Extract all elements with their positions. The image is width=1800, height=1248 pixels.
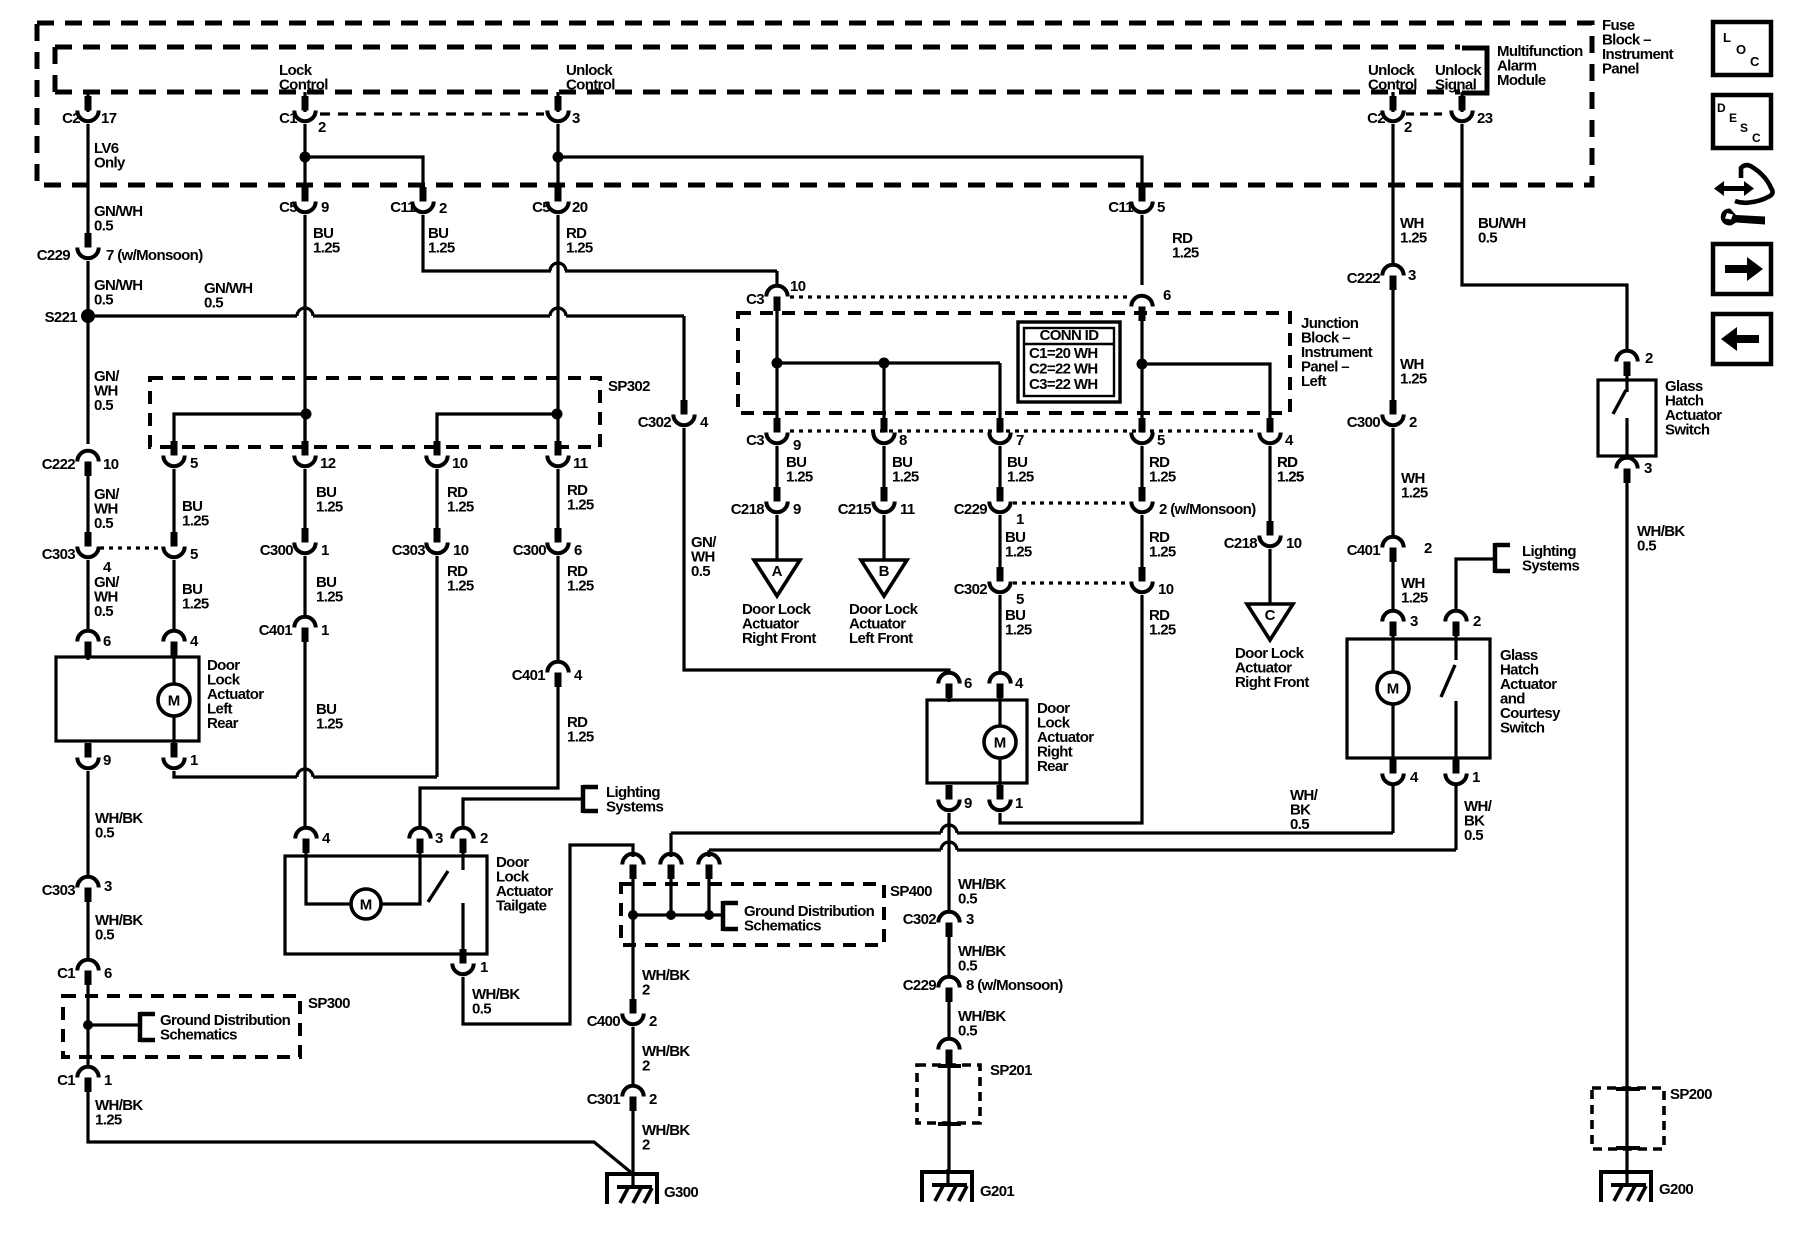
svg-text:2: 2 (1473, 613, 1481, 630)
svg-text:G201: G201 (980, 1183, 1014, 1200)
connector pin 1 below right rear box (989, 785, 1010, 810)
svg-text:9: 9 (103, 752, 111, 769)
dotted line along junction outputs (790, 429, 1256, 432)
connector C5 pin 20 (547, 187, 568, 212)
wire 11 to C300-6 (556, 469, 559, 541)
connector C11 pin 5 (1131, 187, 1152, 212)
svg-text:0.5: 0.5 (94, 397, 113, 414)
connector C1 pin 6 (77, 960, 98, 985)
svg-text:1.25: 1.25 (1400, 230, 1427, 247)
motor M right rear (984, 726, 1016, 758)
tailgate switch lower stub (461, 903, 464, 954)
wire tailgate pin1 to SP400 cup1 (463, 845, 633, 1024)
wire pin9 to C218-9 (775, 446, 778, 500)
svg-text:10: 10 (790, 278, 806, 295)
svg-text:1.25: 1.25 (95, 1112, 122, 1129)
svg-text:Systems: Systems (1522, 558, 1579, 575)
wire C400-2 to C301-2 (631, 1027, 634, 1085)
svg-text:C: C (1752, 131, 1761, 145)
svg-text:2: 2 (1404, 119, 1412, 136)
wire glass hatch pin4 to SP400 cup2 upper (669, 833, 672, 857)
wire C302-5 to right rear pin 4 (998, 595, 1001, 672)
svg-text:4: 4 (1410, 769, 1419, 786)
pin 6 stub inside (947, 698, 950, 702)
svg-text:4: 4 (700, 414, 709, 431)
wire C11-2 to C3-10 (423, 215, 551, 271)
connector C302 pin 10 (1131, 567, 1152, 592)
svg-text:Control: Control (279, 77, 328, 94)
svg-text:7: 7 (1016, 432, 1024, 449)
svg-text:1.25: 1.25 (1149, 544, 1176, 561)
svg-text:2: 2 (1424, 540, 1432, 557)
connector C3 pin 10 (766, 286, 787, 311)
svg-text:1.25: 1.25 (447, 499, 474, 516)
svg-text:2: 2 (642, 982, 650, 999)
svg-text:2: 2 (318, 119, 326, 136)
connector C218 pin 10 (1259, 521, 1280, 546)
ground G200 (1601, 1169, 1651, 1202)
svg-text:SP201: SP201 (990, 1062, 1032, 1079)
connector C3 pin 9 (766, 418, 787, 443)
connector C303 pin 5 (163, 532, 184, 557)
connector pin 4 of left rear actuator (163, 631, 184, 656)
svg-text:1.25: 1.25 (1401, 485, 1428, 502)
svg-text:C222: C222 (1347, 270, 1381, 287)
connector pin 12 (294, 441, 315, 466)
icon arrow right box (1713, 244, 1771, 294)
connector C229 pin 1 (989, 487, 1010, 512)
svg-text:C401: C401 (512, 667, 546, 684)
splice crossbar SP200 bottom (1616, 1146, 1640, 1150)
svg-text:C401: C401 (259, 622, 293, 639)
connector C401 pin 4 (547, 662, 568, 687)
svg-text:Control: Control (1368, 77, 1417, 94)
connector C218 pin 9 (766, 487, 787, 512)
svg-text:2: 2 (642, 1058, 650, 1075)
hop over BU wire at x=305 (313, 775, 437, 778)
wire C300-6 to C401-4 (556, 556, 559, 660)
svg-text:Left: Left (1301, 373, 1327, 390)
connector C229 pin 2 w/Monsoon (1131, 487, 1152, 512)
svg-text:M: M (360, 897, 373, 914)
svg-text:C218: C218 (1224, 535, 1258, 552)
hop S221 over x=558 (550, 308, 566, 316)
wire C303-10 down to y777 corner (435, 556, 438, 777)
svg-text:9: 9 (321, 199, 329, 216)
svg-text:2: 2 (1409, 414, 1417, 431)
connector C222 pin 3 (1382, 265, 1403, 290)
connector C401 pin 2 (1382, 537, 1403, 562)
wire C1-3 down to junction (556, 124, 559, 187)
svg-text:5: 5 (190, 546, 198, 563)
dashed link C1-2 to C1-3 (320, 112, 544, 115)
svg-text:3: 3 (572, 110, 580, 127)
svg-text:C300: C300 (260, 542, 294, 559)
courtesy switch lower stub (1454, 701, 1457, 772)
svg-text:3: 3 (1644, 460, 1652, 477)
svg-text:1.25: 1.25 (182, 596, 209, 613)
svg-text:9: 9 (793, 501, 801, 518)
connector C1 pin 2 (294, 96, 315, 121)
svg-text:C302: C302 (954, 581, 988, 598)
ground G300 (607, 1171, 657, 1204)
svg-text:2: 2 (649, 1091, 657, 1108)
connector SP400 cup 3 (698, 854, 719, 879)
svg-text:C229: C229 (954, 501, 988, 518)
connector C11 pin 6 (1131, 296, 1152, 321)
connector pin 6 of left rear actuator (77, 631, 98, 656)
door lock actuator right rear box (927, 700, 1027, 783)
svg-text:2 (w/Monsoon): 2 (w/Monsoon) (1159, 501, 1256, 518)
dotted link C229-1 to C229-2 (1013, 501, 1129, 504)
connector C2 pin 17 (77, 96, 98, 121)
glass hatch switch blade (1613, 390, 1626, 414)
svg-text:6: 6 (1163, 287, 1171, 304)
svg-text:SP200: SP200 (1670, 1086, 1712, 1103)
svg-text:1.25: 1.25 (1005, 622, 1032, 639)
icon DESC box (1713, 95, 1771, 148)
svg-text:1.25: 1.25 (313, 240, 340, 257)
svg-text:D: D (1717, 101, 1726, 115)
CONN ID box (1018, 322, 1120, 402)
svg-text:C2: C2 (62, 110, 80, 127)
wire C222-10 to C303-4 (86, 476, 89, 545)
svg-text:1.25: 1.25 (1149, 469, 1176, 486)
pin 3 wire to motor (1391, 636, 1394, 672)
alarm module right bracket (1462, 48, 1487, 93)
svg-text:L: L (1723, 30, 1731, 45)
wire pin4 to C218-10 (1268, 446, 1271, 534)
connector pin 4 below glass hatch actuator (1382, 759, 1403, 784)
connector C2 pin 2 (right) (1382, 96, 1403, 121)
junction bus dot right (1137, 359, 1148, 370)
connector C301 pin 2 (622, 1086, 643, 1111)
svg-text:Module: Module (1497, 72, 1546, 89)
svg-text:10: 10 (453, 542, 469, 559)
wire SP302 to cup 10 (435, 424, 438, 454)
wire pin1 to C303-10 riser (174, 771, 297, 777)
svg-text:2: 2 (1645, 350, 1653, 367)
connector pin 3 of tailgate actuator (409, 828, 430, 853)
connector C300 pin 2 (1382, 400, 1403, 425)
svg-text:Right Front: Right Front (742, 630, 816, 647)
node B door lock actuator left front (861, 560, 907, 596)
svg-text:6: 6 (103, 633, 111, 650)
svg-text:1.25: 1.25 (447, 578, 474, 595)
svg-text:Schematics: Schematics (160, 1027, 237, 1044)
svg-text:23: 23 (1477, 110, 1493, 127)
connector C300 pin 6 (547, 528, 568, 553)
svg-text:1.25: 1.25 (1172, 245, 1199, 262)
svg-text:G200: G200 (1659, 1181, 1693, 1198)
svg-text:2: 2 (642, 1137, 650, 1154)
svg-text:C303: C303 (42, 546, 76, 563)
wire C401-2 to glass hatch pin 3 (1391, 562, 1394, 610)
wire pin6 into junction block (1140, 321, 1143, 426)
svg-text:C: C (1265, 607, 1276, 624)
motor M left rear (158, 684, 190, 716)
lighting systems bracket right (1495, 543, 1510, 573)
svg-text:SP300: SP300 (308, 995, 350, 1012)
svg-text:1: 1 (1016, 511, 1024, 528)
wire glass hatch switch to SP200 (1625, 483, 1628, 1091)
svg-text:C11: C11 (390, 199, 415, 216)
svg-text:Right Front: Right Front (1235, 674, 1309, 691)
branch to ground distribution bracket (88, 1023, 140, 1026)
hop over pin9 wire on line 2 (941, 842, 957, 850)
connector C401 pin 1 (294, 617, 315, 642)
connector pin 9 below right rear box (938, 785, 959, 810)
wire S221 corner down to C302-4 (682, 316, 685, 413)
svg-text:5: 5 (1157, 199, 1165, 216)
svg-text:10: 10 (1158, 581, 1174, 598)
connector pin 3 of glass hatch switch (1616, 458, 1637, 483)
svg-text:7 (w/Monsoon): 7 (w/Monsoon) (106, 247, 203, 264)
svg-text:12: 12 (320, 455, 336, 472)
svg-text:1.25: 1.25 (1400, 371, 1427, 388)
wire 10 to C303-10 (435, 469, 438, 541)
motor to pin 1 (998, 758, 1001, 797)
svg-text:1.25: 1.25 (892, 469, 919, 486)
wire C401-4 to tailgate pin 3 (420, 687, 558, 827)
svg-text:0.5: 0.5 (1464, 827, 1483, 844)
motor to pin 3 (381, 853, 420, 904)
svg-text:1: 1 (1015, 795, 1023, 812)
svg-text:C301: C301 (587, 1091, 621, 1108)
svg-text:0.5: 0.5 (204, 295, 223, 312)
svg-text:1.25: 1.25 (428, 240, 455, 257)
svg-text:5: 5 (1157, 432, 1165, 449)
wire 12 to C300-1 (303, 469, 306, 541)
connector C303 pin 3 (77, 877, 98, 902)
wire C302-4 down and to right rear pin 6 (684, 428, 949, 672)
svg-text:C300: C300 (513, 542, 547, 559)
ground distribution schematics bracket (140, 1012, 155, 1042)
wire C218-9 to triangle A (775, 515, 778, 560)
wire C303-5 to actuator pin 4 (172, 560, 175, 630)
wire C2-23 pin stub (1460, 92, 1463, 112)
svg-text:20: 20 (572, 199, 588, 216)
SP302 internal bus right (437, 414, 557, 424)
svg-text:0.5: 0.5 (472, 1001, 491, 1018)
wire C301-2 to ground G300 (631, 1111, 634, 1176)
svg-text:1.25: 1.25 (1277, 469, 1304, 486)
connector pin 2 of glass hatch switch (1616, 351, 1637, 376)
tailgate switch blade (428, 871, 448, 902)
svg-text:0.5: 0.5 (1478, 230, 1497, 247)
svg-text:C303: C303 (42, 882, 76, 899)
motor M tailgate (351, 889, 381, 919)
svg-text:C218: C218 (731, 501, 765, 518)
svg-text:4: 4 (574, 667, 583, 684)
wire glass hatch pin1 to SP400 cup3 (707, 850, 710, 857)
svg-text:O: O (1736, 42, 1746, 57)
wire C215-11 to triangle B (882, 515, 885, 560)
connector pin 4 of tailgate actuator (295, 828, 316, 853)
wire pin8 to C215-11 (882, 446, 885, 500)
svg-text:Signal: Signal (1435, 77, 1477, 94)
svg-text:11: 11 (900, 501, 915, 518)
svg-text:C1: C1 (57, 965, 75, 982)
connector C303 pin 10 (426, 528, 447, 553)
wire S221 to C222-10 (86, 316, 89, 444)
svg-text:SP400: SP400 (890, 883, 932, 900)
courtesy switch stub (1454, 636, 1457, 660)
svg-text:C3: C3 (746, 432, 764, 449)
svg-text:C: C (1750, 54, 1760, 69)
svg-text:1.25: 1.25 (316, 499, 343, 516)
dashed link C2-2 to C2-23 (1406, 112, 1448, 115)
splice SP200 dashed box (1592, 1088, 1664, 1149)
svg-text:1.25: 1.25 (1005, 544, 1032, 561)
svg-text:1.25: 1.25 (1401, 590, 1428, 607)
wire C2-17 pin stub (86, 92, 89, 112)
svg-text:10: 10 (1286, 535, 1302, 552)
svg-text:C303: C303 (392, 542, 426, 559)
wire pin5 to C229-2 (1140, 446, 1143, 500)
icon wrench and arrows (1714, 165, 1773, 225)
wire C1-3 pin stub (556, 92, 559, 112)
svg-text:C1: C1 (279, 110, 297, 127)
svg-text:3: 3 (435, 830, 443, 847)
wire S221 GN/WH bus (88, 314, 297, 317)
junction block dashed box (738, 313, 1290, 413)
splice crossbar SP201 top (938, 1064, 961, 1068)
SP400 internal bus (631, 879, 634, 915)
junction bus dot (772, 358, 783, 369)
wire 5 to C303-5 (172, 469, 175, 545)
svg-text:C11: C11 (1108, 199, 1133, 216)
svg-text:Left Front: Left Front (849, 630, 913, 647)
splice crossbar SP201 bottom (938, 1122, 961, 1126)
svg-text:1.25: 1.25 (1007, 469, 1034, 486)
wire junction to C11-5 drop (558, 157, 1142, 187)
svg-text:Switch: Switch (1500, 720, 1545, 737)
splice crossbar SP200 top (1616, 1087, 1640, 1091)
svg-text:1.25: 1.25 (567, 497, 594, 514)
svg-text:0.5: 0.5 (95, 927, 114, 944)
svg-text:17: 17 (101, 110, 117, 127)
svg-text:C400: C400 (587, 1013, 621, 1030)
motor M glass hatch (1377, 672, 1409, 704)
connector pin 1 below tailgate (452, 949, 473, 974)
wire C300-2 to C401-2 (1391, 428, 1394, 536)
svg-text:0.5: 0.5 (94, 603, 113, 620)
svg-text:5: 5 (190, 455, 198, 472)
svg-text:Panel: Panel (1602, 61, 1639, 78)
connector unnamed above SP201 (938, 1039, 959, 1064)
connector C2 pin 23 (1451, 96, 1472, 121)
connector C300 pin 1 (294, 528, 315, 553)
svg-text:1: 1 (104, 1072, 112, 1089)
svg-text:A: A (772, 563, 783, 580)
svg-text:3: 3 (1408, 267, 1416, 284)
svg-text:CONN ID: CONN ID (1040, 327, 1100, 344)
svg-text:0.5: 0.5 (94, 292, 113, 309)
svg-text:4: 4 (1285, 432, 1294, 449)
fuse block - instrument panel dashed box (37, 23, 1592, 185)
wire lighting systems right to pin 2 (1456, 559, 1495, 610)
svg-text:M: M (994, 735, 1007, 752)
svg-text:0.5: 0.5 (691, 563, 710, 580)
connector pin 4 of right rear actuator (989, 673, 1010, 698)
svg-text:C302: C302 (903, 911, 937, 928)
ground distribution schematics bracket (SP400) (723, 901, 738, 931)
svg-text:B: B (879, 563, 890, 580)
junction dot lock control (300, 152, 311, 163)
svg-text:Tailgate: Tailgate (496, 898, 547, 915)
wire C302-10 down and to right rear pin 1 (1000, 595, 1142, 823)
icon arrow left box (1713, 314, 1771, 364)
courtesy switch blade (1441, 665, 1455, 697)
wire C401-1 to tailgate pin 4 (303, 642, 306, 826)
connector C215 pin 11 (873, 487, 894, 512)
svg-text:C222: C222 (42, 456, 76, 473)
switch lower stub (1625, 418, 1628, 457)
wire C1-2 pin stub (303, 92, 306, 112)
svg-text:C229: C229 (903, 977, 937, 994)
svg-text:4: 4 (190, 633, 199, 650)
svg-text:S: S (1740, 121, 1748, 135)
connector pin 1 below box (163, 743, 184, 768)
svg-text:C1: C1 (57, 1072, 75, 1089)
door lock actuator tailgate box (285, 856, 487, 954)
wire C2-23 BU/WH to glass hatch switch (1462, 124, 1627, 350)
svg-text:6: 6 (574, 542, 582, 559)
svg-text:0.5: 0.5 (94, 218, 113, 235)
svg-text:C3=22 WH: C3=22 WH (1029, 376, 1098, 393)
svg-text:3: 3 (966, 911, 974, 928)
node C door lock actuator right front (1247, 604, 1293, 640)
svg-text:2: 2 (649, 1013, 657, 1030)
wire SP200 to ground G200 (1625, 1091, 1628, 1172)
connector pin 5 (junction) (1131, 418, 1152, 443)
wire C2-2 pin stub (1391, 92, 1394, 112)
svg-text:M: M (168, 693, 181, 710)
pin 4 wire to motor (172, 646, 175, 686)
svg-text:6: 6 (964, 675, 972, 692)
connector C302 pin 5 (989, 567, 1010, 592)
svg-text:C5: C5 (279, 199, 297, 216)
dotted link C302-5 to C302-10 (1013, 581, 1129, 584)
motor to pin 1 (172, 716, 175, 755)
wire pin9 down to C302-3 (947, 813, 950, 912)
connector C303 pin 4 (77, 532, 98, 557)
svg-text:11: 11 (573, 455, 588, 472)
svg-text:1.25: 1.25 (786, 469, 813, 486)
svg-text:1: 1 (1472, 769, 1480, 786)
switch stub from pin 2 (1625, 376, 1628, 392)
connector SP400 cup 2 (660, 854, 681, 879)
wire junction to C11-2 drop (305, 157, 423, 187)
tailgate switch stub from pin 2 (461, 853, 464, 870)
svg-text:5: 5 (1016, 591, 1024, 608)
svg-text:C229: C229 (37, 247, 71, 264)
svg-text:3: 3 (1410, 613, 1418, 630)
svg-text:Systems: Systems (606, 799, 663, 816)
svg-text:2: 2 (480, 830, 488, 847)
svg-text:C5: C5 (532, 199, 550, 216)
hop over x=558 (565, 269, 777, 272)
svg-text:0.5: 0.5 (94, 515, 113, 532)
wire C229-7 to S221 (86, 261, 89, 316)
svg-text:Rear: Rear (1037, 758, 1069, 775)
svg-text:1: 1 (321, 622, 329, 639)
wire C11-5 to pin 6 (1140, 215, 1143, 285)
svg-text:C2=22 WH: C2=22 WH (1029, 361, 1098, 378)
connector pin 8 (873, 418, 894, 443)
wire C222-3 to C300-2 (1391, 290, 1394, 413)
